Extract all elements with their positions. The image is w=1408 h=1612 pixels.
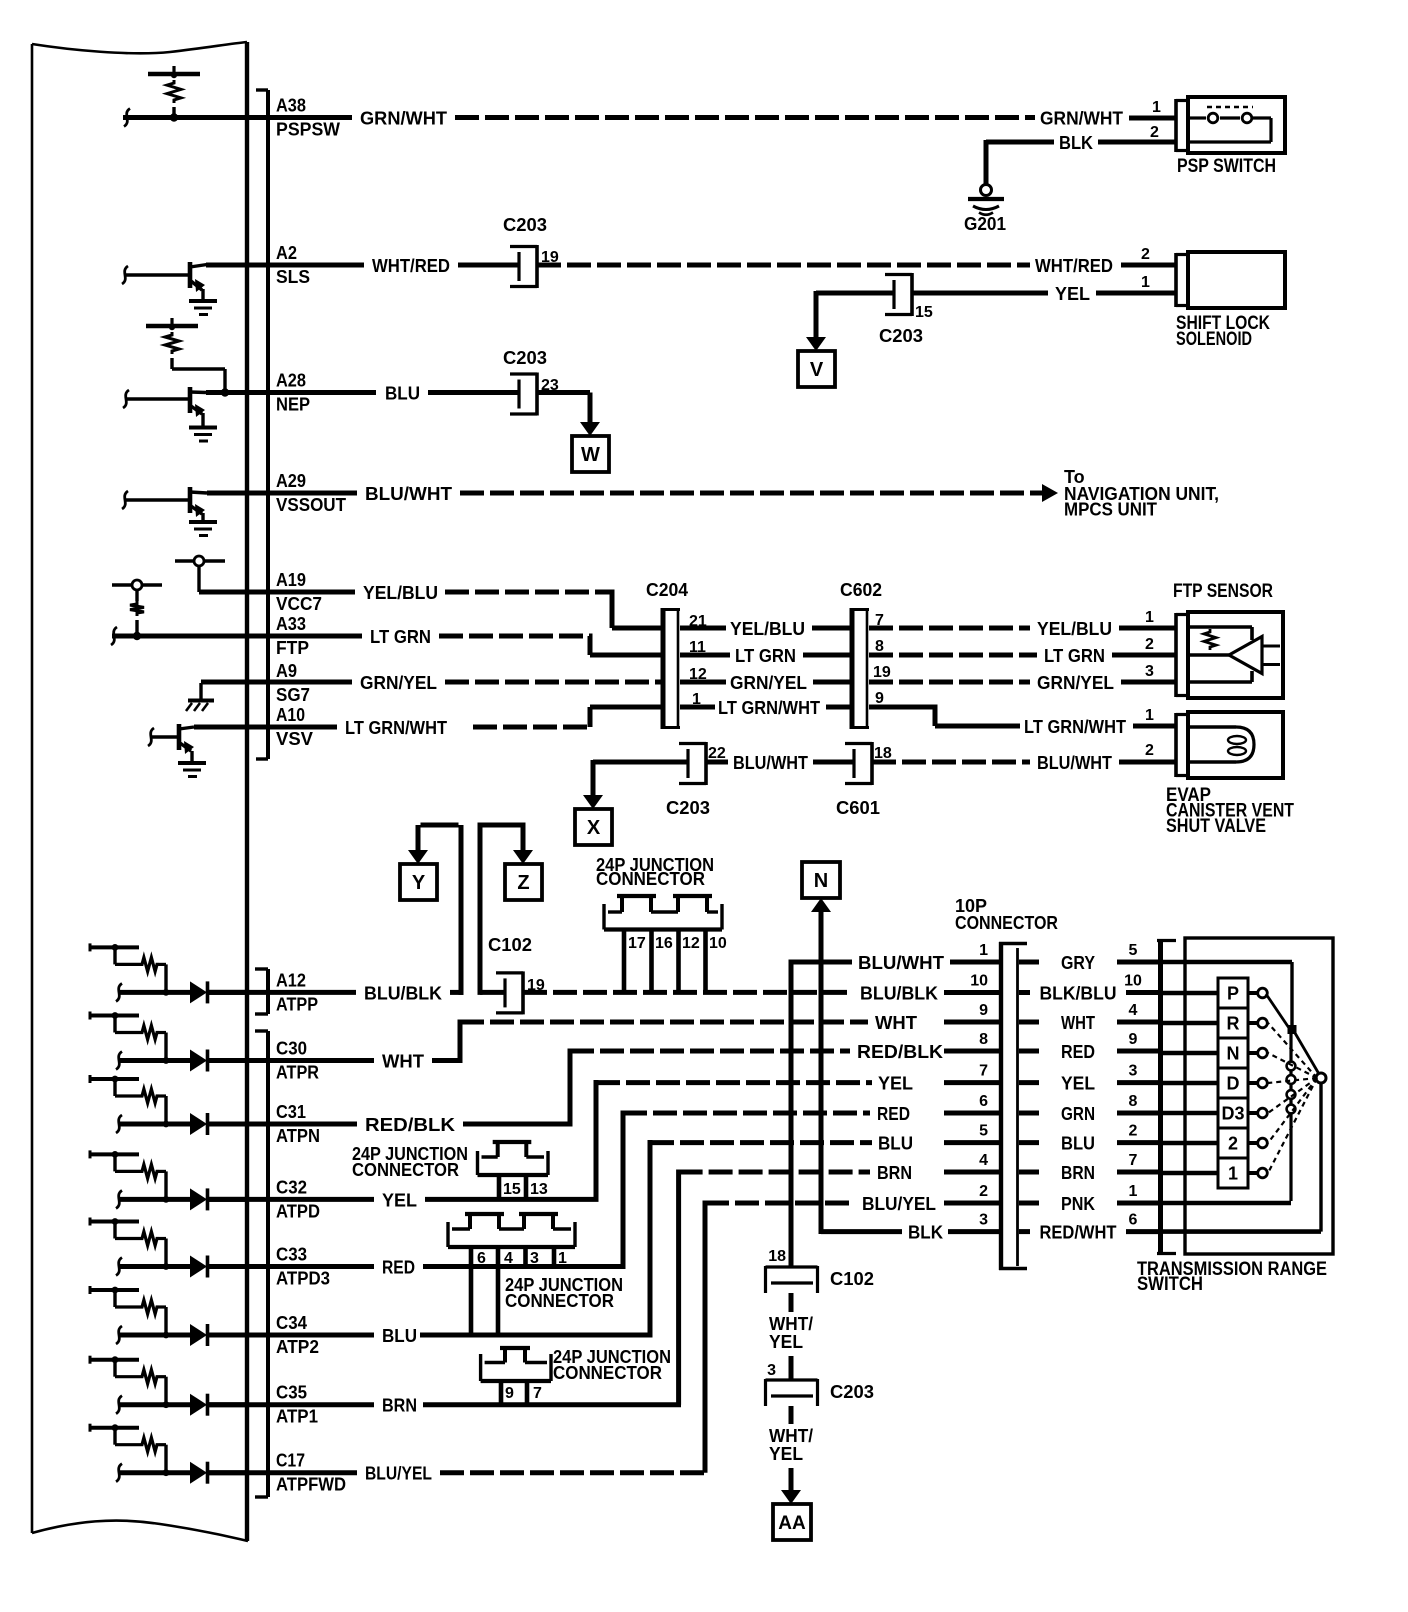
- svg-text:A2: A2: [276, 243, 297, 263]
- svg-text:BLU/WHT: BLU/WHT: [858, 953, 944, 973]
- wire LT GRN to FTP sensor pin 2: [869, 653, 1037, 658]
- svg-text:CONNECTOR: CONNECTOR: [596, 869, 705, 889]
- svg-text:9: 9: [979, 1002, 988, 1019]
- svg-text:4: 4: [1129, 1002, 1138, 1019]
- svg-text:RED/BLK: RED/BLK: [857, 1042, 943, 1062]
- svg-text:BLU/YEL: BLU/YEL: [862, 1194, 936, 1214]
- svg-text:LT GRN: LT GRN: [370, 627, 431, 647]
- wire LT GRN bend into C204 pin 11: [439, 634, 593, 639]
- svg-text:C32: C32: [276, 1177, 307, 1197]
- svg-text:GRY: GRY: [1061, 953, 1095, 973]
- svg-text:C102: C102: [830, 1269, 874, 1289]
- svg-text:RED/WHT: RED/WHT: [1040, 1223, 1117, 1243]
- svg-text:V: V: [810, 359, 824, 381]
- svg-text:1: 1: [1141, 274, 1150, 291]
- ground at A28 transistor emitter: [189, 426, 217, 430]
- connector C602 bar: [850, 608, 855, 729]
- svg-text:WHT/: WHT/: [769, 1314, 813, 1334]
- svg-text:ATPN: ATPN: [276, 1126, 320, 1146]
- ECM pin rail bracket A12/ATPP: [266, 969, 270, 1014]
- SHIFT LOCK SOLENOID box: [1188, 252, 1285, 308]
- svg-text:3: 3: [530, 1250, 539, 1267]
- wire BLU/WHT to EVAP valve pin 2: [872, 760, 1030, 765]
- internal pull-up resistor at pin A28: [146, 324, 198, 328]
- svg-text:2: 2: [1228, 1134, 1238, 1154]
- svg-text:BLU/WHT: BLU/WHT: [733, 753, 808, 773]
- svg-text:4: 4: [504, 1250, 513, 1267]
- svg-text:ATPFWD: ATPFWD: [276, 1475, 346, 1495]
- svg-text:9: 9: [1129, 1031, 1138, 1048]
- wire A29 BLU/WHT pin segment: [207, 491, 357, 496]
- internal resistor/diode circuit at pin C30: [90, 1014, 139, 1018]
- svg-text:YEL: YEL: [769, 1332, 803, 1352]
- svg-text:BRN: BRN: [1061, 1163, 1095, 1183]
- svg-text:SLS: SLS: [276, 267, 310, 287]
- svg-text:2: 2: [1145, 636, 1154, 653]
- svg-text:YEL: YEL: [382, 1190, 417, 1210]
- svg-text:C203: C203: [879, 326, 923, 346]
- wire GRN/WHT long run to PSP switch: [455, 115, 1035, 120]
- wire YEL/BLU to FTP sensor pin 1: [869, 626, 1030, 631]
- svg-text:C34: C34: [276, 1313, 307, 1333]
- svg-text:BLU/WHT: BLU/WHT: [365, 484, 452, 504]
- destination box W: [572, 436, 609, 472]
- connector C203 pin 15 (YEL row): [885, 273, 912, 276]
- pin 1 segment at PSP switch: [1129, 116, 1176, 121]
- svg-text:C601: C601: [836, 798, 880, 818]
- TRS intermediate contact column: [1289, 1034, 1292, 1201]
- internal transistor at pin A10 (VSV driver): [148, 728, 154, 746]
- internal transistor at pin A28 (NEP): [123, 390, 129, 408]
- svg-text:VSSOUT: VSSOUT: [276, 495, 346, 515]
- wire A9 GRN/YEL pin segment: [201, 680, 352, 685]
- 10P connector bar: [999, 942, 1003, 1270]
- svg-text:BRN: BRN: [877, 1163, 912, 1183]
- wire C32 YEL run through junction and riser to 10P pin 7: [207, 1197, 374, 1202]
- ground at A29 transistor emitter: [189, 520, 217, 524]
- FTP SENSOR connector bracket: [1174, 613, 1178, 697]
- TRS position 2: wire, square, contact: [1162, 1141, 1218, 1146]
- svg-text:R: R: [1227, 1014, 1240, 1034]
- wire A38 GRN/WHT pin segment: [123, 115, 352, 120]
- wire C33 RED run through junction and riser to 10P pin 6: [207, 1264, 374, 1269]
- ECM pin rail bracket C30..C17: [266, 1031, 270, 1497]
- svg-text:10: 10: [1124, 973, 1142, 990]
- FTP sensor internal amplifier triangle: [1190, 625, 1252, 629]
- svg-text:C31: C31: [276, 1102, 306, 1122]
- svg-text:5: 5: [1129, 942, 1138, 959]
- svg-text:PSPSW: PSPSW: [276, 120, 340, 140]
- svg-text:GRN/WHT: GRN/WHT: [360, 109, 447, 129]
- internal pull-up resistor circuit at pin A38: [148, 72, 200, 76]
- svg-text:GRN/YEL: GRN/YEL: [360, 673, 437, 693]
- FTP sensor internal resistor: [1204, 629, 1216, 650]
- TRS common wire GRY (pin 5) to moving node: [1162, 960, 1292, 965]
- internal terminal circle at pin A19 (VCC7): [175, 559, 194, 562]
- 24P junction connector (pins 6/4/3/1): [446, 1222, 449, 1247]
- svg-text:19: 19: [873, 664, 891, 681]
- wire LT GRN/WHT stepped to EVAP valve pin 1: [869, 705, 938, 710]
- wire A2 WHT/RED pin segment: [206, 263, 364, 268]
- wire BLU to destination W: [537, 390, 590, 395]
- ECM/PCM unit box (torn-edge outline): [32, 42, 247, 53]
- svg-text:ATP2: ATP2: [276, 1337, 319, 1357]
- svg-text:VSV: VSV: [276, 729, 313, 749]
- svg-text:PSP SWITCH: PSP SWITCH: [1177, 156, 1276, 177]
- svg-text:RED: RED: [877, 1104, 910, 1124]
- svg-text:9: 9: [875, 690, 884, 707]
- svg-text:3: 3: [1145, 663, 1154, 680]
- 24P junction connector (pins 9/7): [479, 1354, 482, 1381]
- wire BLU/WHT from 10P pin 1 down to C102: [789, 960, 794, 1268]
- svg-text:13: 13: [530, 1181, 548, 1198]
- wire BLU/WHT between C203 and C601: [706, 760, 728, 765]
- svg-text:7: 7: [979, 1063, 988, 1080]
- svg-text:3: 3: [1129, 1063, 1138, 1080]
- svg-text:C30: C30: [276, 1039, 307, 1059]
- svg-text:VCC7: VCC7: [276, 594, 322, 614]
- wire BLU/WHT long run to navigation unit: [460, 491, 1046, 496]
- internal resistor/diode circuit at pin C31: [90, 1077, 139, 1081]
- ECM pin rail bracket A38..VSV: [266, 90, 270, 759]
- destination box AA: [773, 1504, 811, 1540]
- svg-text:16: 16: [655, 935, 673, 952]
- wire drop to destination X: [593, 760, 688, 765]
- wire C34 BLU run and riser to 10P pin 5: [207, 1333, 374, 1338]
- internal chassis ground at pin A9 (SG7): [199, 683, 202, 699]
- svg-text:C102: C102: [488, 935, 532, 955]
- wire WHT/YEL between C102 and C203: [789, 1293, 794, 1312]
- svg-text:Z: Z: [517, 872, 529, 894]
- internal resistor/diode circuit at pin C34: [90, 1288, 139, 1292]
- svg-text:WHT/RED: WHT/RED: [372, 256, 450, 276]
- destination box V: [798, 351, 835, 387]
- FTP SENSOR box: [1188, 612, 1283, 698]
- svg-text:LT GRN/WHT: LT GRN/WHT: [345, 718, 447, 738]
- svg-text:7: 7: [533, 1385, 542, 1402]
- connector C203 pin 22: [679, 742, 706, 745]
- internal resistor/diode circuit at pin C17: [90, 1426, 139, 1430]
- internal resistor/diode circuit at pin C32: [90, 1152, 139, 1156]
- svg-text:G201: G201: [964, 214, 1006, 234]
- svg-text:LT GRN/WHT: LT GRN/WHT: [1024, 717, 1126, 737]
- svg-text:9: 9: [505, 1385, 514, 1402]
- wire loop up to destination Y: [459, 825, 464, 995]
- ground G201: [984, 140, 989, 185]
- svg-text:CONNECTOR: CONNECTOR: [505, 1291, 614, 1311]
- TRS position P: wire, square, contact: [1162, 991, 1218, 996]
- svg-text:ATPP: ATPP: [276, 994, 318, 1014]
- svg-text:6: 6: [1129, 1212, 1138, 1229]
- svg-text:X: X: [587, 817, 601, 839]
- svg-text:MPCS UNIT: MPCS UNIT: [1064, 500, 1157, 520]
- svg-text:C203: C203: [503, 215, 547, 235]
- wire GRN/YEL between C204 and C602: [680, 680, 726, 685]
- arrow into N and vertical run: [811, 898, 831, 912]
- internal terminal circle and resistor at pin A33 (FTP): [112, 583, 132, 586]
- PSP SWITCH connector bracket: [1174, 99, 1178, 152]
- EVAP CANISTER VENT SHUT VALVE box: [1188, 712, 1283, 778]
- wire WHT/YEL to destination AA: [789, 1406, 794, 1424]
- wire C17 BLU/YEL run and riser to 10P pin 2: [207, 1470, 357, 1475]
- svg-text:BLK: BLK: [908, 1223, 943, 1243]
- transmission range switch connector bar: [1158, 939, 1163, 1255]
- internal transistor at pin A29 (VSSOUT): [122, 491, 128, 509]
- svg-text:FTP SENSOR: FTP SENSOR: [1173, 581, 1273, 602]
- svg-text:ATPR: ATPR: [276, 1063, 319, 1083]
- svg-text:1: 1: [558, 1250, 567, 1267]
- svg-text:GRN/YEL: GRN/YEL: [1037, 673, 1114, 693]
- svg-text:6: 6: [477, 1250, 486, 1267]
- svg-text:18: 18: [874, 745, 892, 762]
- svg-text:1: 1: [1152, 99, 1161, 116]
- wire YEL from solenoid pin 1: [1096, 291, 1176, 296]
- svg-text:4: 4: [979, 1152, 988, 1169]
- svg-text:BLU: BLU: [1061, 1134, 1095, 1154]
- svg-text:NEP: NEP: [276, 395, 310, 415]
- svg-text:C203: C203: [503, 348, 547, 368]
- svg-text:C203: C203: [666, 798, 710, 818]
- svg-text:C33: C33: [276, 1245, 307, 1265]
- connector C601 pin 18: [845, 742, 872, 745]
- ground at A10 transistor emitter: [178, 761, 206, 765]
- destination box Y: [400, 864, 437, 900]
- svg-text:A33: A33: [276, 614, 306, 634]
- svg-text:BLU/YEL: BLU/YEL: [365, 1464, 432, 1484]
- wire BLK to 10P pin 3: [821, 1229, 902, 1234]
- connector C102 pin 18 (vertical): [766, 1265, 818, 1268]
- svg-text:BLU: BLU: [385, 384, 420, 404]
- svg-text:WHT: WHT: [382, 1052, 424, 1072]
- wire C31 RED/BLK run and riser to 10P pin 8: [207, 1122, 357, 1127]
- svg-text:YEL: YEL: [878, 1074, 913, 1094]
- wire YEL/BLU bend into C204 pin 21: [445, 590, 615, 595]
- svg-text:18: 18: [768, 1248, 786, 1265]
- svg-text:A38: A38: [276, 96, 306, 116]
- wire C35 BRN run through junction and riser to 10P pin 4: [207, 1402, 374, 1407]
- SHIFT LOCK SOLENOID connector bracket: [1174, 253, 1178, 307]
- svg-text:SHUT VALVE: SHUT VALVE: [1166, 816, 1266, 837]
- svg-text:RED/BLK: RED/BLK: [365, 1115, 455, 1135]
- svg-text:A28: A28: [276, 371, 306, 391]
- destination box X: [575, 809, 612, 845]
- svg-text:2: 2: [979, 1183, 988, 1200]
- TRS position N: wire, square, contact: [1162, 1051, 1218, 1056]
- svg-text:YEL/BLU: YEL/BLU: [730, 619, 805, 639]
- svg-text:BLU/BLK: BLU/BLK: [860, 983, 938, 1003]
- connector C203 pin 19 (A2 row): [510, 245, 537, 248]
- svg-text:GRN: GRN: [1061, 1104, 1095, 1124]
- svg-text:GRN/WHT: GRN/WHT: [1040, 109, 1123, 129]
- svg-text:BLU/WHT: BLU/WHT: [1037, 753, 1112, 773]
- svg-text:1: 1: [1145, 707, 1154, 724]
- svg-text:BLU/BLK: BLU/BLK: [364, 983, 442, 1003]
- svg-text:WHT/: WHT/: [769, 1426, 813, 1446]
- wire LT GRN between C204 and C602: [680, 653, 730, 658]
- svg-text:WHT: WHT: [1061, 1013, 1095, 1033]
- connector C203 pin 3 (vertical): [766, 1378, 818, 1381]
- svg-text:1: 1: [979, 942, 988, 959]
- svg-text:2: 2: [1150, 124, 1159, 141]
- svg-text:D: D: [1227, 1074, 1240, 1094]
- svg-text:N: N: [814, 870, 828, 892]
- svg-text:15: 15: [503, 1181, 521, 1198]
- TRS position D: wire, square, contact: [1162, 1081, 1218, 1086]
- svg-text:1: 1: [1129, 1183, 1138, 1200]
- wire A12 BLU/BLK pin segment: [207, 990, 356, 995]
- svg-text:WHT/RED: WHT/RED: [1035, 256, 1113, 276]
- svg-text:BLK/BLU: BLK/BLU: [1040, 984, 1117, 1004]
- svg-text:8: 8: [1129, 1093, 1138, 1110]
- wire GRN/YEL to FTP sensor pin 3: [869, 680, 1030, 685]
- svg-text:C203: C203: [830, 1382, 874, 1402]
- svg-text:PNK: PNK: [1061, 1194, 1095, 1214]
- wire GRN/YEL run into C204 pin 12: [445, 680, 663, 685]
- wire C30 WHT run and riser to 10P pin 9: [207, 1058, 374, 1063]
- ground at A2 transistor emitter: [189, 299, 217, 303]
- svg-text:12: 12: [682, 935, 700, 952]
- connector C203 pin 23 (A28 row): [510, 372, 537, 375]
- svg-text:CONNECTOR: CONNECTOR: [352, 1160, 459, 1180]
- pin 2 segment at shift lock solenoid: [1121, 263, 1176, 268]
- svg-text:BLU: BLU: [382, 1326, 417, 1346]
- wire A10 LT GRN/WHT pin segment: [194, 725, 337, 730]
- internal resistor/diode circuit at pin C33: [90, 1220, 139, 1224]
- svg-text:3: 3: [767, 1362, 776, 1379]
- svg-text:P: P: [1227, 984, 1239, 1004]
- svg-text:LT GRN: LT GRN: [735, 646, 796, 666]
- wire BLU/BLK run to 10P connector: [523, 990, 852, 995]
- svg-text:YEL: YEL: [769, 1444, 803, 1464]
- svg-text:YEL: YEL: [1055, 284, 1090, 304]
- svg-text:BLU: BLU: [878, 1134, 913, 1154]
- svg-text:A29: A29: [276, 471, 306, 491]
- wire A28 BLU pin segment: [206, 390, 376, 395]
- svg-text:2: 2: [1129, 1123, 1138, 1140]
- svg-text:CONNECTOR: CONNECTOR: [553, 1363, 662, 1383]
- internal transistor at pin A2 (SLS driver): [122, 266, 128, 284]
- wire loop from destination Z down to C102: [480, 990, 505, 995]
- TRS wire PNK (pin 1) to contact column: [1162, 1201, 1291, 1206]
- svg-text:A10: A10: [276, 705, 305, 725]
- svg-text:A12: A12: [276, 970, 306, 990]
- svg-text:GRN/YEL: GRN/YEL: [730, 673, 807, 693]
- svg-text:C602: C602: [840, 580, 882, 600]
- svg-text:1: 1: [1228, 1164, 1238, 1184]
- svg-text:ATPD: ATPD: [276, 1201, 320, 1221]
- svg-text:LT GRN/WHT: LT GRN/WHT: [718, 698, 820, 718]
- svg-text:8: 8: [979, 1031, 988, 1048]
- EVAP CANISTER VENT SHUT VALVE connector bracket: [1174, 713, 1178, 777]
- svg-text:AA: AA: [778, 1513, 806, 1534]
- PSP SWITCH box: [1188, 97, 1285, 153]
- svg-text:6: 6: [979, 1093, 988, 1110]
- svg-text:22: 22: [708, 745, 726, 762]
- svg-text:RED: RED: [382, 1258, 415, 1278]
- svg-text:ATP1: ATP1: [276, 1407, 318, 1427]
- svg-text:SWITCH: SWITCH: [1137, 1274, 1203, 1295]
- svg-text:C17: C17: [276, 1451, 305, 1471]
- svg-text:YEL/BLU: YEL/BLU: [363, 583, 438, 603]
- TRS dashed selector lines: [1268, 1023, 1317, 1078]
- svg-text:8: 8: [875, 638, 884, 655]
- svg-text:BRN: BRN: [382, 1396, 417, 1416]
- destination box N: [802, 862, 840, 898]
- wire WHT/RED long run to solenoid: [537, 263, 1030, 268]
- svg-text:C35: C35: [276, 1383, 307, 1403]
- wire drop to destination V: [814, 291, 819, 339]
- wire YEL/BLU between C204 and C602: [680, 626, 726, 631]
- svg-text:3: 3: [979, 1212, 988, 1229]
- wire LT GRN/WHT between C204 and C602: [680, 705, 715, 710]
- TRS position R: wire, square, contact: [1162, 1021, 1218, 1026]
- TRS solid contact line P-node-pivot: [1266, 994, 1289, 1028]
- wire BLK from PSP switch pin 2: [1098, 140, 1176, 145]
- svg-text:15: 15: [915, 304, 933, 321]
- 24P junction connector (pins 17/16/12/10): [602, 904, 605, 930]
- wire A33 LT GRN pin segment: [112, 634, 362, 639]
- svg-text:5: 5: [979, 1123, 988, 1140]
- svg-text:2: 2: [1145, 742, 1154, 759]
- svg-text:Y: Y: [412, 872, 426, 894]
- svg-text:YEL/BLU: YEL/BLU: [1037, 619, 1112, 639]
- TRS position D3: wire, square, contact: [1162, 1111, 1218, 1116]
- TRS wire RED/WHT (pin 6) to pivot: [1162, 1229, 1321, 1234]
- destination box Z: [505, 864, 542, 900]
- svg-text:2: 2: [1141, 246, 1150, 263]
- svg-text:D3: D3: [1221, 1104, 1244, 1124]
- wire LT GRN/WHT bend into C204 pin 1: [473, 725, 593, 730]
- TRANSMISSION RANGE SWITCH box: [1185, 938, 1333, 1254]
- svg-text:LT GRN: LT GRN: [1044, 646, 1105, 666]
- svg-text:A19: A19: [276, 570, 306, 590]
- svg-text:10: 10: [709, 935, 727, 952]
- internal resistor/diode circuit at pin A12: [90, 945, 139, 949]
- svg-text:WHT: WHT: [875, 1013, 917, 1033]
- svg-text:W: W: [581, 444, 600, 466]
- svg-text:CONNECTOR: CONNECTOR: [955, 913, 1058, 933]
- connector C102 pin 19: [496, 971, 523, 974]
- svg-text:7: 7: [1129, 1152, 1138, 1169]
- svg-text:10: 10: [970, 973, 988, 990]
- connector C204 bar: [661, 608, 666, 729]
- svg-text:A9: A9: [276, 661, 297, 681]
- svg-text:SG7: SG7: [276, 685, 310, 705]
- TRS moving contact node: [1288, 1025, 1297, 1034]
- 24P junction connector (pins 15/13): [476, 1151, 479, 1175]
- TRS position 1: wire, square, contact: [1162, 1171, 1218, 1176]
- svg-text:BLK: BLK: [1059, 133, 1093, 153]
- svg-text:C204: C204: [646, 580, 688, 600]
- svg-text:N: N: [1227, 1044, 1240, 1064]
- svg-text:RED: RED: [1061, 1042, 1095, 1062]
- EVAP valve internal coil: [1190, 725, 1236, 729]
- svg-text:FTP: FTP: [276, 638, 309, 658]
- PSP switch internal contacts: [1207, 106, 1253, 109]
- internal resistor/diode circuit at pin C35: [90, 1358, 139, 1362]
- svg-text:17: 17: [628, 935, 646, 952]
- svg-text:ATPD3: ATPD3: [276, 1269, 330, 1289]
- svg-text:SOLENOID: SOLENOID: [1176, 329, 1252, 350]
- svg-text:1: 1: [1145, 609, 1154, 626]
- TRS pivot circle: [1319, 1082, 1322, 1232]
- svg-text:YEL: YEL: [1061, 1074, 1095, 1094]
- wire A19 YEL/BLU pin segment: [199, 590, 355, 595]
